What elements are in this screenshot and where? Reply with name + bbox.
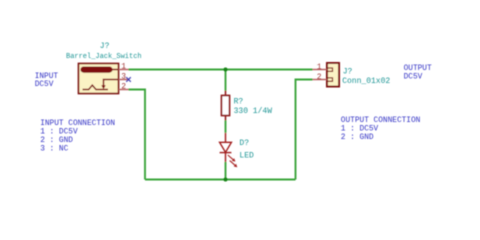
svg-text:INPUT: INPUT [35,73,59,81]
connector J? Conn_01x02 body [327,63,339,87]
pin 1 of J? jack [119,69,129,71]
pin 3 of J? jack [119,79,129,81]
LED emission arrow 1 [228,155,236,162]
no-connect X on pin 3 [126,77,131,82]
svg-text:3: 3 [121,72,126,81]
svg-text:J?: J? [343,67,353,76]
svg-text:OUTPUT CONNECTION: OUTPUT CONNECTION [341,117,421,125]
svg-text:1: 1 [317,63,322,72]
pin 1 of connector [313,69,328,71]
svg-text:2 : GND: 2 : GND [341,134,374,142]
svg-text:Barrel_Jack_Switch: Barrel_Jack_Switch [66,53,142,61]
resistor pin top [225,91,227,96]
svg-text:330 1/4W: 330 1/4W [234,107,273,116]
barrel jack pin1 internal line [112,69,119,71]
barrel jack sleeve contact zigzag [83,85,109,89]
resistor R? body [222,96,230,116]
barrel jack J? body [79,64,119,94]
LED cathode lead [225,153,227,162]
barrel jack pill (center pin) [81,67,113,73]
svg-text:2: 2 [121,82,126,91]
wire top DC5V net [129,70,313,180]
svg-text:2 : GND: 2 : GND [40,137,73,145]
wire jack pin2 to GND rail [129,90,146,180]
svg-text:D?: D? [239,139,249,148]
svg-text:3 : NC: 3 : NC [40,145,68,153]
wire resistor to LED [225,121,227,133]
resistor pin bottom [225,116,227,121]
wire GND rail up to connector pin2 [296,80,313,180]
svg-text:Conn_01x02: Conn_01x02 [342,77,390,86]
LED emission arrow 2 [230,161,238,168]
svg-text:INPUT CONNECTION: INPUT CONNECTION [40,120,115,128]
svg-text:DC5V: DC5V [35,81,54,89]
pin 2 of J? jack [119,89,129,91]
wire GND rail bottom [145,179,296,181]
svg-text:LED: LED [239,151,254,160]
svg-text:1 : DC5V: 1 : DC5V [40,129,78,137]
svg-text:DC5V: DC5V [404,73,423,81]
LED D? anode lead [225,133,227,143]
svg-text:2: 2 [317,73,322,82]
svg-text:1 : DC5V: 1 : DC5V [341,126,379,134]
connector pin notch 1 [327,68,333,71]
svg-text:OUTPUT: OUTPUT [404,65,432,73]
junction bottom [224,178,228,182]
connector pin notch 2 [327,78,333,81]
wire LED to GND rail [225,162,227,180]
pin 2 of connector [313,79,328,81]
svg-text:J?: J? [100,42,110,51]
svg-text:1: 1 [121,62,126,71]
LED triangle [220,142,232,152]
LED cathode bar [220,152,232,154]
wire resistor drop [225,70,227,91]
svg-text:R?: R? [234,98,244,107]
barrel jack switch arm with arrow [104,80,119,86]
junction top [224,68,228,72]
